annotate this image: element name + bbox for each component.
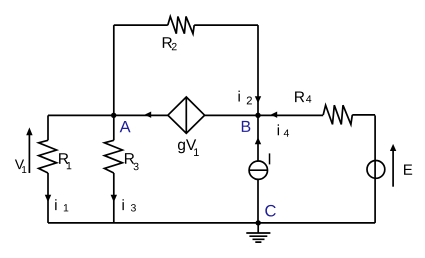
wire R3 branch lower bbox=[113, 173, 115, 223]
source I circle bbox=[249, 161, 267, 179]
node C bbox=[256, 220, 261, 225]
resistor R3 bbox=[104, 140, 122, 173]
label R3 R bbox=[125, 153, 134, 164]
source I bar bbox=[249, 169, 267, 171]
label E bbox=[404, 164, 412, 174]
label V1 V bbox=[15, 159, 24, 169]
label R1 sub1 bbox=[67, 162, 72, 169]
label i2 i bbox=[239, 91, 240, 102]
label i2 sub2 bbox=[247, 97, 252, 105]
ground bbox=[246, 223, 270, 242]
wire source I to bottom bbox=[257, 179, 259, 223]
arrowhead left of diamond bbox=[144, 112, 151, 118]
wire left outer vertical upper bbox=[47, 115, 49, 140]
arrowhead up above source I bbox=[255, 137, 261, 144]
arrowhead i3 down-pointing bbox=[111, 195, 117, 203]
source E circle bbox=[367, 161, 385, 179]
node label A bbox=[120, 121, 131, 132]
node B bbox=[255, 113, 260, 118]
arrow E shaft bbox=[392, 149, 394, 187]
wire R3 branch upper bbox=[113, 115, 115, 140]
wire R4 to right corner bbox=[352, 114, 375, 116]
arrowhead E up bbox=[390, 144, 396, 151]
resistor R1 bbox=[39, 140, 57, 173]
wire right vertical through source E bbox=[374, 115, 376, 222]
wire vertical from top wire down to node A bbox=[113, 25, 115, 115]
label i4 sub4 bbox=[284, 129, 289, 136]
resistor R2 bbox=[168, 17, 194, 34]
arrowhead V1 up bbox=[26, 127, 32, 135]
label R3 sub3 bbox=[134, 163, 139, 170]
dependent source gV1 diamond bbox=[168, 97, 205, 133]
label I bbox=[269, 153, 270, 164]
label R1 R bbox=[59, 153, 68, 164]
node A bbox=[111, 113, 116, 118]
arrowhead i4 left-pointing right of B bbox=[271, 112, 278, 118]
arrowhead i1 down-pointing bbox=[45, 195, 51, 203]
node label B bbox=[242, 121, 251, 132]
arrowhead i2 down-pointing above B bbox=[255, 96, 261, 103]
resistor R4 bbox=[323, 105, 352, 124]
label gV1 sub1 bbox=[194, 148, 199, 156]
wire top-left segment bbox=[114, 24, 168, 26]
label i3 sub3 bbox=[131, 204, 136, 211]
label i4 i bbox=[278, 124, 279, 135]
label R4 sub4 bbox=[306, 95, 311, 102]
label gV1 gV bbox=[178, 139, 196, 153]
wire top-right segment bbox=[194, 24, 258, 26]
label R4 R bbox=[295, 91, 304, 102]
label R2 sub2 bbox=[172, 43, 177, 50]
wire vertical from top wire down to node B bbox=[257, 25, 259, 115]
label i1 sub1 bbox=[64, 204, 69, 211]
wire bottom bbox=[48, 222, 375, 224]
wire node A left to left branch bbox=[48, 114, 114, 116]
wire node B to R4 bbox=[258, 114, 323, 116]
node label C bbox=[265, 205, 275, 217]
arrow V1 shaft bbox=[28, 132, 30, 173]
label V1 sub1 bbox=[22, 166, 26, 173]
wire diamond to node B bbox=[205, 114, 258, 116]
wire node A to diamond bbox=[114, 114, 168, 116]
wire left outer vertical lower bbox=[47, 173, 49, 223]
label i1 i bbox=[55, 199, 56, 210]
label i3 i bbox=[123, 199, 124, 210]
label R2 R bbox=[163, 37, 172, 48]
wire node B down to source I bbox=[257, 115, 259, 161]
